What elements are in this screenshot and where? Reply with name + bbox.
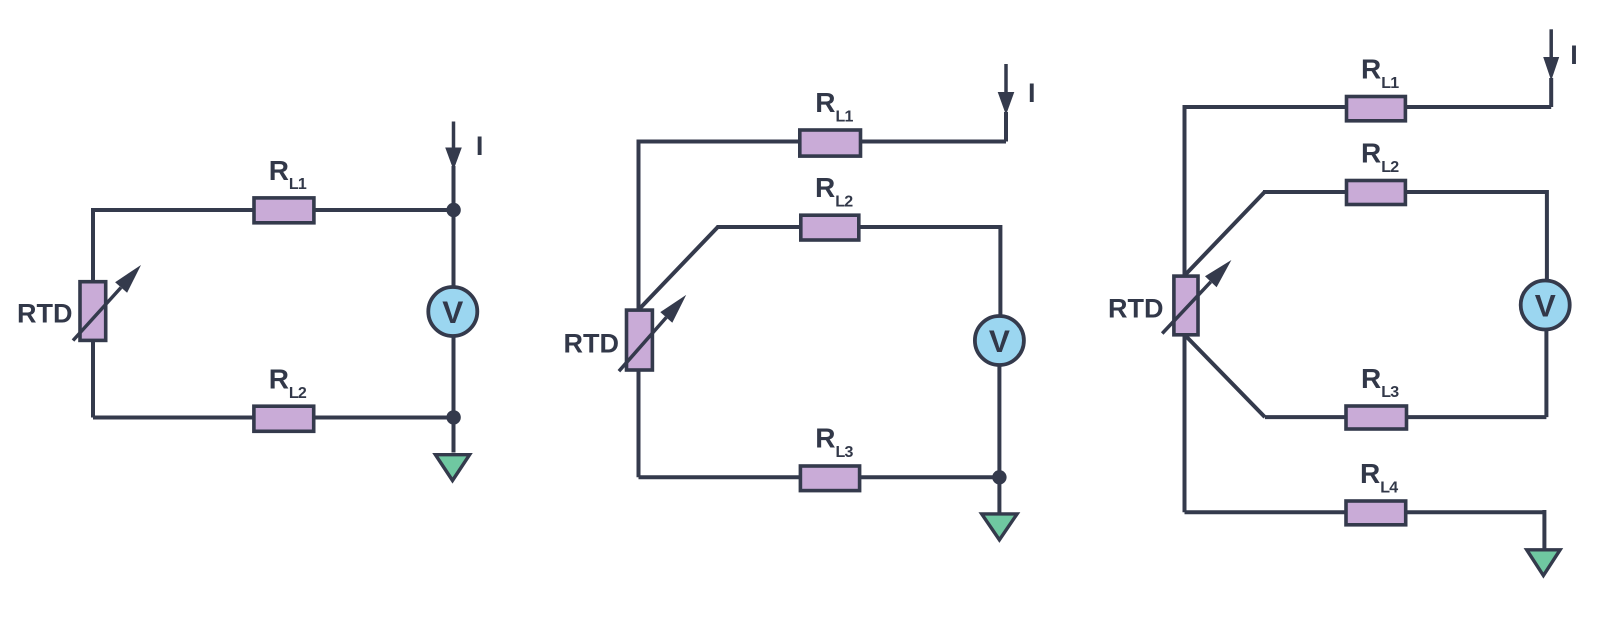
- current source arrow I (circuit 1): [445, 122, 462, 171]
- wire from current arrow (circuit 3): [1549, 78, 1553, 107]
- RTD variable resistor (circuit 1): [80, 282, 106, 341]
- RTD arrow (circuit 1): [73, 265, 141, 341]
- wire RL3 right vertical (circuit 3): [1544, 329, 1548, 417]
- current source arrow I (circuit 2): [998, 64, 1015, 115]
- wire RL2 horizontal (circuit 2): [717, 225, 1001, 229]
- svg-text:RTD: RTD: [1108, 294, 1164, 324]
- wire to ground (circuit 2): [997, 477, 1001, 514]
- wire bottom (circuit 3): [1185, 510, 1545, 514]
- junction node (circuit 2): [992, 470, 1006, 484]
- svg-text:V: V: [1535, 287, 1556, 323]
- wire RL2 horizontal (circuit 3): [1263, 190, 1547, 194]
- ground (circuit 1): [435, 455, 469, 481]
- wire voltmeter to bottom (circuit 2): [997, 364, 1001, 478]
- wire from current arrow (circuit 2): [1004, 112, 1008, 142]
- ground (circuit 2): [982, 514, 1017, 540]
- wire diagonal to RTD (circuit 3): [1186, 336, 1265, 417]
- RTD arrow (circuit 3): [1162, 260, 1231, 334]
- resistor RL2 (circuit 2): [801, 215, 859, 240]
- svg-text:I: I: [476, 131, 484, 161]
- svg-text:V: V: [442, 294, 463, 330]
- voltmeter V (circuit 1): [428, 287, 477, 336]
- resistor RL3 (circuit 2): [800, 466, 859, 491]
- junction node top (circuit 1): [446, 203, 460, 217]
- RTD variable resistor (circuit 3): [1174, 276, 1198, 335]
- wire top (circuit 2): [639, 140, 1007, 144]
- wire diagonal to RL2 (circuit 2): [639, 227, 718, 310]
- voltmeter V (circuit 2): [975, 316, 1024, 365]
- RTD variable resistor (circuit 2): [627, 310, 653, 370]
- voltmeter V (circuit 3): [1521, 281, 1570, 330]
- wire left vertical (circuit 3): [1183, 105, 1187, 512]
- wire RL3 horizontal (circuit 3): [1265, 415, 1547, 419]
- resistor RL1 (circuit 1): [254, 198, 314, 223]
- wire left vertical (circuit 2): [637, 140, 641, 478]
- ground (circuit 3): [1527, 550, 1560, 576]
- wire left vertical (circuit 1): [91, 208, 95, 418]
- svg-text:RTD: RTD: [17, 299, 73, 329]
- resistor RL1 (circuit 3): [1347, 97, 1406, 121]
- wire top (circuit 1): [93, 208, 454, 212]
- resistor RL1 (circuit 2): [800, 130, 861, 156]
- wire right vertical (circuit 1): [452, 166, 456, 453]
- resistor RL2 (circuit 1): [254, 406, 314, 431]
- wire top (circuit 3): [1185, 105, 1552, 109]
- wire RL2 right vertical (circuit 3): [1545, 190, 1549, 281]
- current source arrow I (circuit 3): [1543, 29, 1559, 80]
- svg-text:RTD: RTD: [564, 329, 620, 359]
- wire bottom (circuit 1): [93, 416, 454, 420]
- svg-text:I: I: [1570, 40, 1578, 70]
- svg-text:I: I: [1028, 78, 1036, 108]
- wire bottom (circuit 2): [639, 475, 1000, 479]
- junction node bottom (circuit 1): [446, 410, 460, 424]
- wire bottom right vertical (circuit 3): [1542, 510, 1546, 550]
- svg-text:V: V: [989, 323, 1010, 359]
- wire diagonal to RL2 (circuit 3): [1185, 192, 1265, 275]
- wire RL2 right vertical (circuit 2): [998, 225, 1002, 317]
- resistor RL3 (circuit 3): [1346, 406, 1407, 429]
- resistor RL4 (circuit 3): [1346, 501, 1406, 525]
- RTD arrow (circuit 2): [619, 295, 686, 371]
- resistor RL2 (circuit 3): [1347, 181, 1406, 205]
